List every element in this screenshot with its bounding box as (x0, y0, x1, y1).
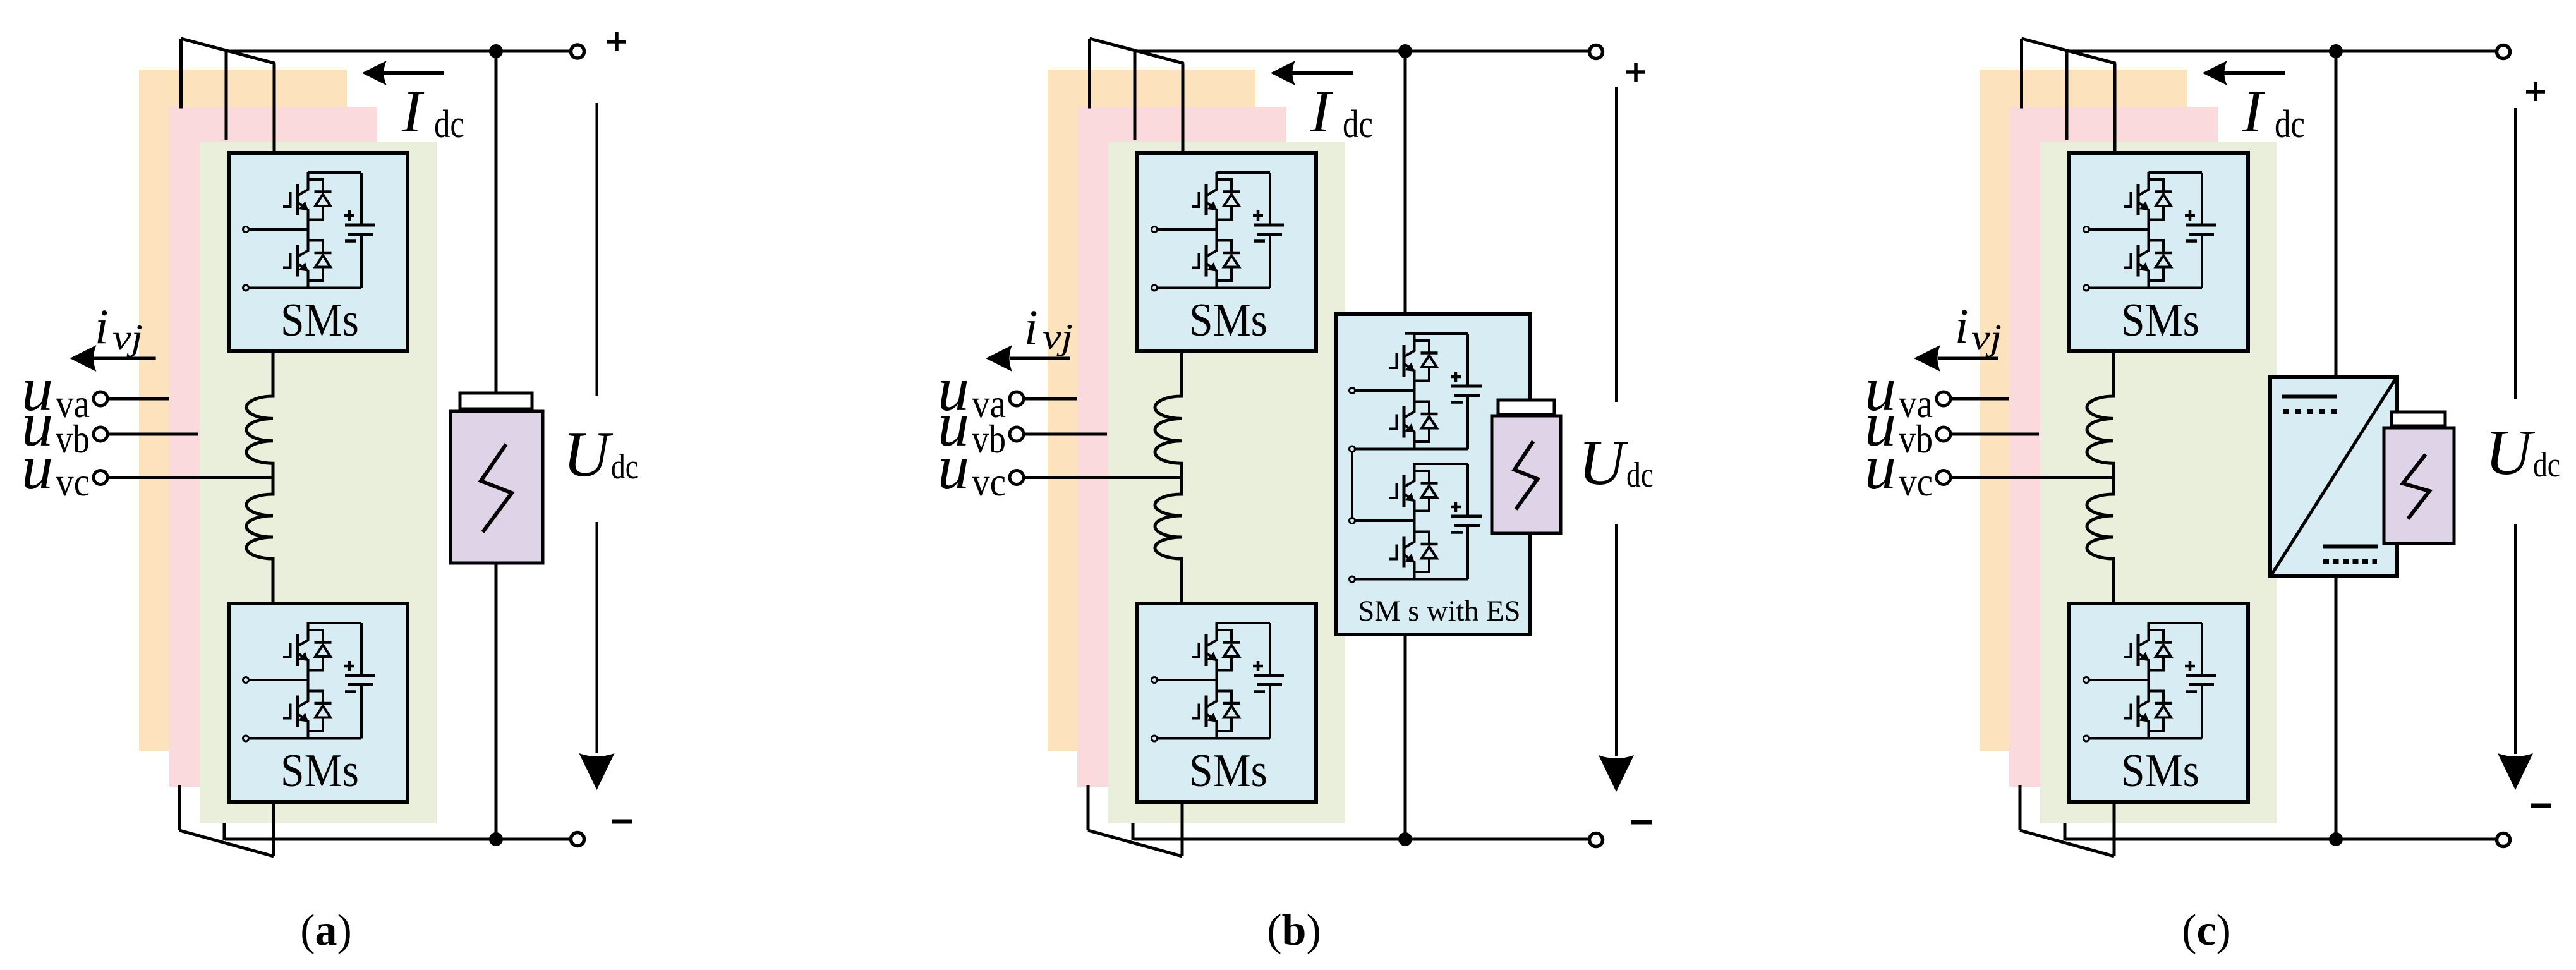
diode triangle (1224, 255, 1239, 267)
top rail wire (1415, 463, 1468, 465)
upper AC port terminal (243, 227, 249, 233)
capacitor C plates (1254, 224, 1284, 227)
bottom slanted bus wire (b) (1088, 830, 1182, 856)
IGBT emitter arrow (2139, 713, 2150, 722)
diode connection wires (2149, 179, 2164, 220)
diode connection wires (308, 691, 324, 732)
DC-DC input DC bar (c) (2282, 395, 2337, 399)
IGBT gate bar (1403, 345, 1406, 377)
wire u_vb (b) (1025, 433, 1107, 436)
svg-text:dc: dc (1626, 456, 1654, 495)
midpoint spine wire (307, 209, 310, 243)
junction node bottom (a) (489, 832, 503, 846)
capacitor plus mark (1451, 372, 1461, 382)
upper AC port wire (1158, 679, 1217, 681)
IGBT gate lead (1389, 483, 1397, 498)
svg-text:dc: dc (2275, 103, 2305, 146)
svg-text:dc: dc (2533, 446, 2560, 485)
arrow I_dc (a) (383, 71, 444, 75)
svg-text:u: u (21, 432, 53, 502)
top DC rail (c) (2066, 50, 2495, 53)
minus terminal mark (a) (612, 820, 632, 824)
diode connection wires (308, 179, 324, 220)
battery cap (a) (460, 393, 532, 409)
arrow I_dc (c) (2223, 71, 2285, 75)
diode triangle (315, 195, 330, 207)
IGBT gate bar (1205, 245, 1208, 277)
DC-DC output dashed bar (c) (2323, 559, 2377, 564)
upper arm SMs box (b) (1137, 153, 1316, 351)
arm inductor L (c) (2087, 351, 2113, 603)
IGBT collector lead (1207, 233, 1217, 257)
IGBT emitter arrow (2139, 262, 2150, 272)
top slanted bus wire (b) (1090, 39, 1184, 63)
bottom DC rail (c) (2065, 838, 2495, 841)
svg-text:U: U (563, 419, 614, 490)
svg-text:(b): (b) (1267, 906, 1321, 955)
top rail wire (1217, 171, 1271, 174)
IGBT emitter arrow (299, 652, 309, 662)
upper AC port wire (1355, 389, 1415, 392)
capacitor minus mark (1254, 239, 1265, 243)
IGBT emitter lead (298, 715, 308, 732)
lower AC port terminal (243, 736, 249, 741)
diode cathode bar (315, 190, 332, 193)
IGBT emitter lead (1207, 653, 1217, 670)
submodule half-bridge circuit lower c (2084, 622, 2216, 741)
node u_vc port (c) (1937, 471, 1950, 485)
midpoint spine wire (1216, 209, 1218, 243)
lower arm SMs box (a) (229, 603, 408, 802)
wire ES-SM box to rail (b) (1404, 579, 1407, 840)
phase-c layer band (b) (1108, 142, 1345, 823)
diode triangle (1422, 416, 1437, 428)
capacitor plus mark (2185, 210, 2195, 221)
IGBT collector lead (1405, 463, 1415, 487)
top phase stub wire b (c) (2065, 52, 2069, 140)
minus terminal mark (b) (1631, 820, 1652, 825)
wire u_vc (a) (109, 476, 273, 479)
diode connection wires (2149, 241, 2164, 281)
arrow i_vj (b) (1010, 357, 1070, 360)
IGBT gate lead (1192, 253, 1199, 268)
svg-text:SMs: SMs (1189, 745, 1267, 797)
positive DC terminal (c) (2497, 45, 2510, 59)
battery cap (b) (1498, 400, 1554, 415)
capacitor C plates (2186, 674, 2216, 677)
wire rail to battery (a) (495, 51, 498, 393)
svg-text:(c): (c) (2182, 906, 2231, 955)
IGBT gate lead (2124, 192, 2131, 207)
diode cathode bar (1421, 482, 1438, 485)
svg-text:SMs: SMs (281, 745, 359, 797)
submodule half-bridge circuit ES upper b (1350, 333, 1482, 452)
U_dc arrowhead (c) (2498, 753, 2533, 790)
IGBT gate lead (2124, 643, 2131, 657)
svg-text:i: i (95, 299, 109, 354)
IGBT gate lead (283, 192, 291, 207)
bottom phase stub wire b (c) (2064, 823, 2067, 840)
diode connection wires (1415, 532, 1430, 573)
lower AC port terminal (1350, 576, 1355, 582)
lower spine wire (2148, 731, 2150, 739)
wire u_vc (b) (1025, 476, 1182, 479)
diode triangle (315, 255, 330, 267)
IGBT gate bar (296, 696, 299, 727)
node u_vb port (a) (94, 427, 107, 441)
IGBT emitter arrow (2139, 202, 2150, 211)
submodule half-bridge circuit upper b (1152, 172, 1285, 291)
top DC rail (b) (1134, 50, 1588, 53)
plus terminal mark (c) (2526, 82, 2545, 101)
DC-DC output DC bar (c) (2323, 545, 2378, 549)
IGBT emitter lead (2139, 715, 2149, 732)
svg-text:vc: vc (1899, 459, 1933, 504)
plus terminal mark (a) (607, 32, 626, 51)
top phase stub wire b (a) (225, 52, 228, 140)
battery lightning bolt (c) (2403, 454, 2429, 519)
top rail wire (2149, 622, 2203, 624)
svg-text:vb: vb (56, 416, 90, 461)
bottom phase stub wire a (b) (1087, 785, 1090, 830)
svg-text:vj: vj (1043, 317, 1073, 357)
upper AC port wire (2089, 228, 2149, 231)
IGBT gate bar (1205, 184, 1208, 215)
submodule half-bridge circuit ES lower b (1350, 463, 1482, 582)
wire u_va (a) (109, 397, 169, 401)
upper arm SMs box (a) (229, 153, 408, 351)
upper AC port terminal (1152, 227, 1158, 233)
lower spine wire (2148, 281, 2150, 288)
top slanted bus wire (a) (181, 39, 275, 63)
diode cathode bar (315, 702, 332, 705)
midpoint spine wire (1216, 659, 1218, 694)
svg-text:SMs: SMs (2121, 294, 2199, 346)
top phase stub wire a (c) (2020, 39, 2023, 109)
IGBT collector lead (298, 684, 308, 707)
IGBT gate lead (2124, 704, 2131, 718)
top rail wire (2149, 171, 2203, 174)
upper AC port terminal (1350, 388, 1355, 394)
midpoint spine wire (1413, 370, 1416, 404)
positive DC terminal (b) (1590, 45, 1603, 59)
capacitor bus wire (2201, 173, 2203, 288)
bottom phase wire c from SMs (b) (1181, 801, 1184, 856)
IGBT emitter arrow (1405, 554, 1415, 563)
arm inductor L (b) (1155, 351, 1182, 603)
IGBT collector lead (2139, 172, 2149, 195)
positive DC terminal (a) (571, 45, 584, 58)
negative DC terminal (a) (571, 833, 584, 846)
lower arm SMs box (c) (2069, 603, 2248, 802)
lower spine wire (1216, 731, 1218, 739)
wire DC-DC converter to rail (c) (2335, 576, 2338, 839)
phase-b layer band (c) (2009, 107, 2218, 787)
minus terminal mark (c) (2531, 804, 2551, 808)
top phase stub wire b (b) (1134, 52, 1137, 140)
IGBT collector lead (1207, 622, 1217, 646)
diode triangle (1422, 356, 1437, 368)
junction node bottom (b) (1398, 832, 1412, 846)
diode cathode bar (1223, 190, 1240, 193)
node u_va port (c) (1937, 392, 1950, 406)
IGBT collector lead (298, 233, 308, 257)
capacitor plus mark (1253, 210, 1263, 221)
upper AC port terminal (1152, 677, 1158, 683)
IGBT gate bar (296, 245, 299, 277)
capacitor bus wire (360, 173, 363, 288)
IGBT gate lead (1192, 192, 1199, 207)
diode connection wires (1217, 241, 1232, 281)
IGBT emitter lead (298, 653, 308, 670)
diode triangle (315, 645, 330, 657)
diode triangle (1224, 645, 1239, 657)
svg-text:SMs: SMs (1189, 294, 1267, 346)
U_dc measurement line (c) (2514, 108, 2517, 754)
node u_vb port (c) (1937, 427, 1950, 441)
wire u_vc (c) (1952, 476, 2113, 479)
diode connection wires (2149, 630, 2164, 670)
top rail wire (1217, 622, 1271, 624)
top phase wire c to SMs (c) (2113, 63, 2117, 154)
IGBT emitter lead (1207, 715, 1217, 732)
lower spine wire (307, 281, 310, 288)
capacitor minus mark (345, 690, 356, 693)
diode triangle (2156, 645, 2171, 657)
capacitor minus mark (345, 239, 356, 243)
IGBT collector lead (2139, 622, 2149, 646)
submodule half-bridge circuit upper a (243, 172, 376, 291)
capacitor bus wire (1466, 334, 1469, 449)
node u_vc port (a) (94, 471, 107, 485)
diode connection wires (1217, 630, 1232, 670)
battery ES body (a) (450, 411, 543, 563)
diode cathode bar (1223, 252, 1240, 255)
IGBT emitter lead (2139, 203, 2149, 220)
phase-a layer band (b) (1048, 70, 1255, 751)
IGBT gate lead (283, 253, 291, 268)
IGBT gate lead (1389, 545, 1397, 559)
top rail wire (1415, 332, 1468, 335)
upper AC port terminal (243, 677, 249, 683)
diode triangle (2156, 706, 2171, 718)
phase-c layer band (c) (2040, 142, 2277, 823)
DC-DC input dashed bar (c) (2283, 409, 2337, 414)
bottom slanted bus wire (c) (2020, 830, 2114, 856)
IGBT emitter lead (1207, 203, 1217, 220)
phase-b layer band (b) (1077, 107, 1286, 787)
capacitor plus mark (1451, 502, 1461, 512)
IGBT emitter arrow (299, 202, 309, 211)
IGBT emitter arrow (1207, 202, 1218, 211)
upper AC port wire (249, 228, 308, 231)
diode cathode bar (315, 641, 332, 644)
entry wire inside ES box (b) (1405, 332, 1415, 335)
IGBT emitter arrow (1405, 363, 1415, 372)
top phase wire c to SMs (a) (273, 63, 276, 154)
midpoint spine wire (2148, 209, 2150, 243)
diode triangle (2156, 255, 2171, 267)
diode triangle (1224, 706, 1239, 718)
top phase wire c to SMs (b) (1182, 63, 1185, 154)
diode cathode bar (2155, 702, 2172, 705)
diode connection wires (308, 241, 324, 281)
U_dc arrowhead (b) (1599, 755, 1634, 792)
IGBT gate bar (1205, 696, 1208, 727)
IGBT emitter lead (298, 203, 308, 220)
IGBT collector lead (298, 622, 308, 646)
top phase stub wire a (a) (179, 39, 183, 109)
battery lightning bolt (a) (481, 444, 512, 532)
junction node bottom (c) (2329, 832, 2343, 846)
lower AC port terminal (243, 285, 249, 291)
capacitor C plates (1451, 385, 1482, 388)
U_dc measurement line (b) (1615, 87, 1618, 756)
lower AC port terminal (2084, 736, 2089, 741)
lower spine wire (307, 731, 310, 739)
IGBT gate lead (1192, 704, 1199, 718)
U_dc measurement line (a) (596, 103, 598, 753)
arrow i_vj (a) (94, 357, 156, 360)
DC-DC diagonal divider (c) (2271, 379, 2396, 575)
IGBT gate bar (1403, 537, 1406, 568)
IGBT gate bar (1403, 406, 1406, 438)
diode cathode bar (1421, 351, 1438, 355)
diode triangle (1422, 547, 1437, 559)
wire battery to rail (a) (495, 563, 498, 839)
diode connection wires (1415, 341, 1430, 381)
bottom rail wire (249, 287, 362, 289)
svg-text:u: u (938, 432, 969, 502)
diode triangle (315, 706, 330, 718)
junction node top (c) (2329, 44, 2343, 58)
negative DC terminal (b) (1590, 834, 1603, 847)
arrow I_dc (b) (1291, 71, 1353, 75)
IGBT collector lead (1405, 394, 1415, 418)
battery ES body (b) (1492, 416, 1561, 533)
IGBT emitter lead (1405, 364, 1415, 381)
diode cathode bar (1223, 702, 1240, 705)
upper arm SMs box (c) (2069, 153, 2248, 351)
svg-text:I: I (1310, 78, 1333, 145)
bottom rail wire (1355, 578, 1468, 581)
IGBT emitter lead (298, 264, 308, 281)
node u_vb port (b) (1010, 427, 1024, 441)
bottom phase wire c from SMs (c) (2113, 801, 2116, 856)
capacitor minus mark (1254, 690, 1265, 693)
svg-text:vc: vc (972, 459, 1006, 504)
diode connection wires (308, 630, 324, 670)
negative DC terminal (c) (2497, 834, 2510, 847)
IGBT emitter lead (1405, 494, 1415, 511)
svg-text:(a): (a) (300, 906, 352, 955)
submodule half-bridge circuit lower a (243, 622, 376, 741)
upper AC port wire (1158, 228, 1217, 231)
IGBT emitter arrow (1207, 713, 1218, 722)
capacitor bus wire (1466, 464, 1469, 579)
midpoint spine wire (307, 659, 310, 694)
bottom rail wire (1355, 448, 1468, 451)
midpoint spine wire (2148, 659, 2150, 694)
IGBT collector lead (1405, 524, 1415, 548)
DC-DC converter box U1 (c) (2270, 377, 2397, 576)
series link wire between ES submodules (b) (1351, 452, 1353, 518)
svg-text:vb: vb (972, 416, 1006, 461)
bottom phase wire c from SMs (a) (272, 801, 275, 856)
bottom rail wire (1158, 737, 1271, 740)
upper AC port wire (2089, 679, 2149, 681)
node u_vc port (b) (1010, 471, 1024, 485)
capacitor C plates (1254, 674, 1284, 677)
wire u_va (b) (1025, 397, 1077, 401)
capacitor plus mark (1253, 661, 1263, 671)
bottom slanted bus wire (a) (179, 830, 274, 856)
upper AC port terminal (2084, 677, 2089, 683)
diode cathode bar (1421, 413, 1438, 416)
IGBT emitter arrow (1207, 652, 1218, 662)
upper AC port terminal (1350, 518, 1355, 524)
diode cathode bar (2155, 252, 2172, 255)
wire rail to ES-SM box (b) (1404, 51, 1407, 334)
phase-b layer band (a) (169, 107, 377, 787)
IGBT emitter arrow (2139, 652, 2150, 662)
bottom rail wire (2089, 737, 2203, 740)
wire u_vb (a) (109, 433, 198, 436)
lower AC port terminal (1152, 285, 1158, 291)
top rail wire (308, 622, 362, 624)
diode connection wires (1415, 471, 1430, 511)
upper AC port terminal (2084, 227, 2089, 233)
wire rail to DC-DC converter (c) (2335, 51, 2338, 377)
IGBT collector lead (2139, 684, 2149, 707)
junction node top (b) (1398, 44, 1412, 58)
diode cathode bar (2155, 190, 2172, 193)
top rail wire (308, 171, 362, 174)
capacitor plus mark (344, 661, 354, 671)
diode cathode bar (315, 252, 332, 255)
bottom rail wire (1158, 287, 1271, 289)
svg-text:i: i (1955, 298, 1969, 353)
IGBT emitter lead (2139, 653, 2149, 670)
IGBT gate bar (2137, 184, 2140, 215)
diode connection wires (1217, 179, 1232, 220)
bottom phase stub wire b (a) (223, 823, 226, 840)
node u_va port (a) (94, 392, 107, 406)
svg-text:SM s with ES: SM s with ES (1358, 595, 1521, 627)
svg-text:u: u (1865, 432, 1896, 502)
SMs-with-ES box (b) (1336, 314, 1530, 634)
IGBT gate lead (1389, 353, 1397, 368)
IGBT emitter lead (1405, 425, 1415, 442)
wire u_vb (c) (1952, 433, 2039, 436)
battery cap (c) (2392, 412, 2445, 426)
IGBT gate lead (283, 704, 291, 718)
capacitor C plates (1451, 515, 1482, 518)
capacitor minus mark (1451, 401, 1463, 404)
IGBT gate bar (296, 634, 299, 666)
phase-a layer band (c) (1980, 70, 2187, 751)
svg-text:U: U (2485, 417, 2536, 488)
IGBT emitter lead (1405, 555, 1415, 573)
capacitor C plates (2186, 224, 2216, 227)
svg-text:vj: vj (112, 318, 143, 358)
svg-text:U: U (1578, 427, 1629, 499)
battery ES body (c) (2384, 428, 2454, 543)
phase-a layer band (a) (139, 70, 347, 751)
IGBT gate lead (283, 643, 291, 657)
IGBT collector lead (1405, 333, 1415, 356)
IGBT collector lead (298, 172, 308, 195)
